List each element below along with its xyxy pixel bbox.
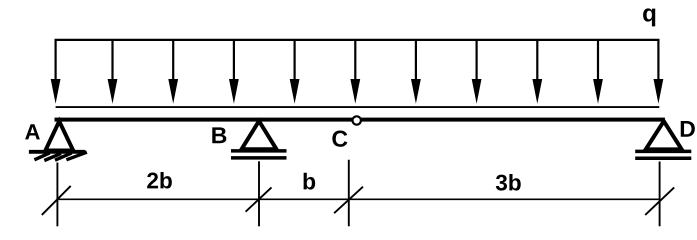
dimension label b bbox=[304, 173, 316, 190]
load label q bbox=[643, 8, 655, 26]
load arrow 11 bbox=[654, 39, 664, 104]
support B label bbox=[212, 127, 226, 143]
support A label bbox=[25, 124, 40, 139]
support B roller line 1 bbox=[231, 149, 287, 153]
extension line C bbox=[348, 160, 350, 227]
load arrow 1 bbox=[51, 39, 61, 104]
load arrow 6 bbox=[350, 39, 360, 104]
support A hatch 4 bbox=[66, 152, 87, 160]
support A hatch 2 bbox=[44, 153, 61, 160]
tick slash B bbox=[246, 187, 272, 211]
dimension line bbox=[57, 198, 660, 200]
support D roller triangle bbox=[646, 121, 682, 149]
hinge C circle bbox=[353, 116, 361, 124]
hinge C label bbox=[332, 131, 347, 147]
support B roller triangle bbox=[242, 121, 277, 149]
load arrow 2 bbox=[108, 39, 118, 104]
load arrow 4 bbox=[229, 39, 239, 104]
extension line B bbox=[258, 161, 260, 226]
load arrow 7 bbox=[411, 39, 421, 104]
load arrow 8 bbox=[472, 39, 482, 104]
dimension label 3b bbox=[496, 174, 521, 191]
support D roller line 1 bbox=[635, 150, 691, 154]
support D roller line 2 bbox=[635, 156, 691, 160]
extension line A bbox=[56, 163, 58, 227]
support B roller line 2 bbox=[231, 156, 287, 160]
support A hatch 1 bbox=[34, 153, 49, 160]
load arrow 9 bbox=[532, 39, 542, 104]
support A pin triangle bbox=[45, 121, 73, 150]
load arrow 3 bbox=[168, 39, 178, 104]
load bottom reference line bbox=[56, 106, 660, 108]
support A hatch 3 bbox=[55, 153, 72, 160]
distributed load top line bbox=[55, 39, 660, 41]
tick slash A bbox=[42, 186, 71, 215]
tick slash C bbox=[334, 187, 363, 214]
beam AD bbox=[55, 118, 665, 122]
extension line D bbox=[659, 162, 661, 227]
load arrow 5 bbox=[290, 39, 300, 104]
tick slash D bbox=[645, 187, 674, 215]
load arrow 10 bbox=[593, 39, 603, 104]
support A base line bbox=[29, 150, 86, 154]
support D label bbox=[681, 121, 695, 137]
dimension label 2b bbox=[147, 172, 172, 189]
